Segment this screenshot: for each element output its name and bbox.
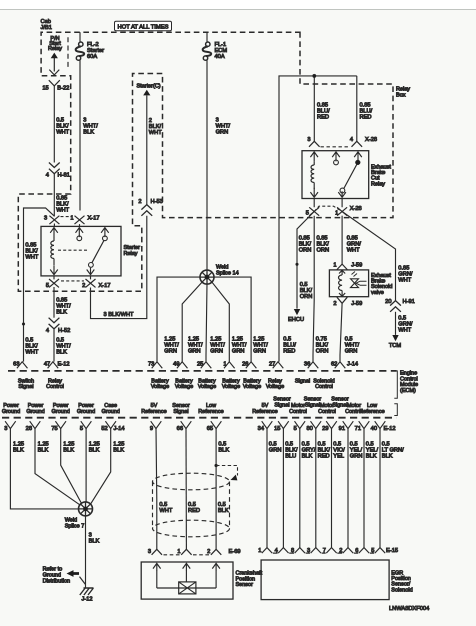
connector E-15 pin 6 bbox=[359, 548, 369, 554]
ECM pin 63 bbox=[17, 362, 28, 369]
connector X-28 pin 3 bbox=[309, 141, 320, 147]
svg-text:Voltage: Voltage bbox=[175, 384, 193, 390]
svg-text:GRN: GRN bbox=[350, 453, 363, 459]
ECM pin 66 (lower row) bbox=[181, 421, 192, 428]
svg-text:91: 91 bbox=[339, 426, 345, 432]
junction node on relay feed bbox=[313, 74, 317, 78]
svg-text:Reference: Reference bbox=[141, 409, 166, 415]
svg-text:Splice 7: Splice 7 bbox=[65, 524, 85, 530]
wire 0.5 to EGR pin 3 bbox=[315, 429, 317, 548]
ECM pin 80 (lower row) bbox=[311, 421, 322, 428]
P/N Start Relay compartment dashed divider bbox=[67, 37, 69, 67]
ECM pin 52 (lower row) bbox=[105, 421, 116, 428]
svg-text:1: 1 bbox=[333, 262, 336, 268]
weld splice 7 bbox=[79, 502, 93, 516]
svg-text:2: 2 bbox=[333, 301, 336, 307]
svg-text:3: 3 bbox=[148, 549, 151, 555]
wire 0.5 WHT/BLK from H-52 to pin 47 bbox=[53, 329, 55, 362]
exhaust relay coil bbox=[310, 152, 318, 162]
wire 0.5 RED ECM pin 66 to E-69 pin 1 bbox=[185, 429, 187, 550]
solenoid valve symbol bbox=[351, 279, 359, 288]
wire battery voltage to pin 26 bbox=[214, 277, 252, 362]
wire 0.5 to EGR pin 7 bbox=[331, 429, 333, 548]
svg-text:Signal: Signal bbox=[332, 403, 347, 409]
ECM pin 28 (lower row) bbox=[30, 421, 41, 428]
svg-text:J-59: J-59 bbox=[351, 301, 362, 307]
svg-text:ORN: ORN bbox=[316, 349, 329, 355]
wire 0.75 BLK/ORN from X-28 pin 5 to ECM pin 36 bbox=[313, 216, 314, 362]
ECM pin 75 (lower row) bbox=[55, 421, 66, 428]
svg-text:J-14: J-14 bbox=[347, 361, 358, 367]
connector J-59 pin 1 bbox=[337, 264, 347, 270]
svg-text:63: 63 bbox=[13, 361, 19, 367]
svg-text:52: 52 bbox=[101, 426, 107, 432]
svg-text:5: 5 bbox=[306, 210, 309, 216]
svg-text:TCM: TCM bbox=[389, 343, 402, 349]
svg-text:71: 71 bbox=[355, 426, 361, 432]
wire 0.5 GRN/WHT from H-91 to TCM bbox=[395, 312, 397, 335]
solenoid coil bbox=[339, 270, 345, 275]
splice tick on switch-signal wire bbox=[22, 323, 25, 326]
svg-text:valve: valve bbox=[371, 290, 384, 296]
svg-text:RED: RED bbox=[283, 349, 295, 355]
svg-text:WHT: WHT bbox=[56, 130, 69, 136]
svg-text:BLK: BLK bbox=[302, 453, 313, 459]
svg-text:HOT AT ALL TIMES: HOT AT ALL TIMES bbox=[118, 24, 169, 30]
connector X-17 pin 2 bbox=[86, 279, 96, 287]
svg-text:3: 3 bbox=[4, 426, 7, 432]
svg-text:WHT: WHT bbox=[56, 208, 69, 214]
exhaust brake cut relay box bbox=[302, 151, 369, 199]
svg-text:Voltage: Voltage bbox=[151, 384, 169, 390]
svg-text:GRN: GRN bbox=[232, 349, 245, 355]
X-28 lower connector dashed bridge bbox=[314, 206, 342, 211]
svg-text:Reference: Reference bbox=[198, 409, 223, 415]
svg-text:15: 15 bbox=[274, 426, 280, 432]
starter relay box bbox=[41, 226, 121, 276]
wire battery voltage to pin 25 bbox=[206, 284, 207, 362]
svg-text:Signal: Signal bbox=[18, 384, 33, 390]
ECM pin 40 (lower row) bbox=[375, 421, 386, 428]
svg-text:ORN: ORN bbox=[300, 294, 313, 300]
svg-text:40: 40 bbox=[371, 426, 377, 432]
svg-text:25: 25 bbox=[197, 361, 203, 367]
inline connector H-91 pin 20 bbox=[390, 301, 401, 312]
svg-text:E-12: E-12 bbox=[58, 361, 70, 367]
svg-text:62: 62 bbox=[331, 361, 337, 367]
svg-text:4: 4 bbox=[46, 173, 49, 179]
svg-text:BLK: BLK bbox=[38, 447, 49, 453]
ground J-12 bbox=[80, 588, 94, 595]
svg-text:5: 5 bbox=[294, 426, 297, 432]
svg-text:Voltage: Voltage bbox=[198, 384, 216, 390]
ECM connector dashed line (upper) bbox=[8, 370, 397, 372]
svg-text:WHT: WHT bbox=[149, 130, 162, 136]
connector E-69 pin 2 bbox=[211, 549, 221, 555]
starter relay contacts bbox=[76, 228, 84, 238]
svg-text:1: 1 bbox=[223, 361, 226, 367]
svg-text:4: 4 bbox=[46, 328, 49, 334]
starter relay mechanical link bbox=[58, 249, 88, 251]
connector E-15 pin 4 bbox=[278, 548, 288, 554]
svg-text:Ground: Ground bbox=[26, 409, 44, 415]
splice tick on EHCU wire bbox=[296, 263, 299, 266]
svg-text:3 BLK/WHT: 3 BLK/WHT bbox=[104, 312, 135, 318]
inline connector H-53 pin 2 bbox=[141, 205, 152, 216]
svg-text:65: 65 bbox=[207, 426, 213, 432]
crank sensor internals bbox=[153, 563, 161, 570]
svg-text:J-59: J-59 bbox=[351, 262, 362, 268]
svg-text:Control: Control bbox=[318, 409, 336, 415]
svg-text:40A: 40A bbox=[215, 54, 225, 60]
inline connector H-81 pin 4 bbox=[49, 163, 60, 174]
wire 0.5 WHT/GRN from J-59 pin 2 to ECM pin 62 bbox=[340, 303, 342, 361]
stems X-17 pins to relay box bbox=[54, 224, 91, 280]
svg-text:RED: RED bbox=[188, 508, 200, 514]
connector X-28 pin 5 bbox=[309, 207, 319, 215]
svg-text:BLK: BLK bbox=[89, 539, 100, 545]
svg-text:Relay: Relay bbox=[371, 181, 385, 187]
svg-text:BLK: BLK bbox=[218, 508, 229, 514]
wire 0.5 to EGR pin 1 bbox=[266, 429, 268, 548]
svg-text:X-17: X-17 bbox=[88, 215, 100, 221]
svg-text:GRN: GRN bbox=[210, 349, 223, 355]
svg-text:GRN: GRN bbox=[216, 130, 229, 136]
svg-text:WHT: WHT bbox=[347, 248, 360, 254]
svg-text:GRN: GRN bbox=[269, 447, 282, 453]
wire 0.5 WHT ECM pin 9 to E-69 pin 3 bbox=[155, 429, 158, 550]
svg-text:GRN: GRN bbox=[164, 349, 177, 355]
svg-text:Ground: Ground bbox=[77, 409, 95, 415]
ECM pin 91 (lower row) bbox=[343, 421, 354, 428]
svg-text:2: 2 bbox=[138, 199, 141, 205]
svg-text:BLK: BLK bbox=[13, 447, 24, 453]
svg-text:H-91: H-91 bbox=[403, 299, 415, 305]
svg-text:X-17: X-17 bbox=[99, 283, 111, 289]
wire 0.5 to EGR pin 2 bbox=[347, 429, 349, 548]
svg-text:YEL: YEL bbox=[333, 453, 344, 459]
svg-text:BLK: BLK bbox=[63, 447, 74, 453]
svg-text:9: 9 bbox=[150, 426, 153, 432]
wire 0.5 to EGR pin 8 bbox=[299, 429, 301, 548]
ECM pin 1 bbox=[224, 362, 235, 369]
X-17 lower connector dashed face bbox=[61, 280, 84, 282]
svg-text:RED: RED bbox=[317, 115, 329, 121]
svg-text:Ground: Ground bbox=[52, 409, 70, 415]
wire battery voltage to pin 49 bbox=[182, 282, 202, 362]
svg-text:5: 5 bbox=[80, 426, 83, 432]
X-28 upper connector dashed face bbox=[321, 146, 351, 148]
EHCU arrow bbox=[294, 309, 300, 315]
connector E-69 pin 3 bbox=[152, 549, 162, 555]
svg-text:Voltage: Voltage bbox=[222, 384, 240, 390]
svg-text:66: 66 bbox=[177, 426, 183, 432]
wire FL-2 feed from hot bus bbox=[79, 32, 81, 41]
svg-text:E-12: E-12 bbox=[384, 426, 396, 432]
svg-text:EHCU: EHCU bbox=[288, 317, 304, 323]
connector E-15 pin 2 bbox=[343, 548, 353, 554]
ECM pin 49 bbox=[177, 362, 188, 369]
wire 0.5 to EGR pin 5 bbox=[379, 429, 381, 548]
TCM arrow bbox=[392, 335, 398, 341]
HOT AT ALL TIMES bus label bbox=[115, 21, 172, 30]
ECM pin 3 (lower row) bbox=[5, 421, 16, 428]
svg-text:Solenoid: Solenoid bbox=[391, 587, 412, 593]
inline connector H-52 pin 4 bbox=[49, 318, 60, 329]
svg-text:Reference: Reference bbox=[359, 409, 384, 415]
wire 2 BLK/WHT to Starter(C) with arrow bbox=[143, 90, 150, 96]
svg-text:BLK: BLK bbox=[56, 350, 67, 356]
svg-text:3: 3 bbox=[44, 215, 47, 221]
svg-text:H-53: H-53 bbox=[151, 199, 163, 205]
ECM pin 15 (lower row) bbox=[278, 421, 289, 428]
svg-text:28: 28 bbox=[26, 426, 32, 432]
wire 0.85 WHT/BLK from X-17 pin 5 to H-52 bbox=[53, 287, 55, 318]
svg-text:Relay: Relay bbox=[124, 251, 138, 257]
connector E-15 pin 3 bbox=[311, 548, 321, 554]
connector X-17 pin 1 bbox=[75, 216, 85, 224]
svg-text:Ground: Ground bbox=[2, 409, 20, 415]
svg-text:Splice 14: Splice 14 bbox=[216, 271, 239, 277]
fuse FL-1 ECM 40A bbox=[206, 42, 210, 46]
svg-text:J-12: J-12 bbox=[82, 596, 93, 602]
wire 0.85 GRN/WHT from X-28 pin 1 to solenoid valve bbox=[341, 216, 343, 264]
ECM pin 5 (lower row) bbox=[81, 421, 92, 428]
svg-text:WHT: WHT bbox=[159, 508, 172, 514]
svg-text:RED: RED bbox=[318, 453, 330, 459]
connector E-15 pin 7 bbox=[326, 548, 336, 554]
svg-text:Ground: Ground bbox=[102, 409, 120, 415]
connector E-69 pin 1 bbox=[181, 549, 191, 555]
svg-text:ORN: ORN bbox=[317, 248, 330, 254]
wire 1.25 BLK pin 5 to splice 7 bbox=[85, 429, 87, 503]
wire 3 WHT/GRN from FL-1 to weld splice 14 bbox=[206, 60, 208, 271]
svg-text:LNWA8DXF004: LNWA8DXF004 bbox=[389, 606, 429, 612]
ECM pin 62 bbox=[335, 362, 346, 369]
wire 0.85 GRN/WHT branch to H-91 and TCM bbox=[342, 212, 395, 301]
connector X-28 pin 1 bbox=[337, 207, 347, 215]
wire 3 BLK splice 7 to ground J-12 bbox=[85, 516, 87, 588]
svg-text:(ECM): (ECM) bbox=[400, 388, 416, 394]
crankshaft position sensor box bbox=[141, 562, 233, 599]
svg-text:X-28: X-28 bbox=[350, 206, 362, 212]
connector B-22 pin 15 bbox=[49, 80, 60, 86]
svg-text:Relay: Relay bbox=[48, 46, 62, 52]
svg-text:H-52: H-52 bbox=[58, 328, 70, 334]
svg-text:3: 3 bbox=[307, 137, 310, 143]
svg-text:GRN: GRN bbox=[188, 349, 201, 355]
svg-text:H-81: H-81 bbox=[58, 173, 70, 179]
wire 0.85 BLK/WHT branch to switch signal bbox=[24, 208, 55, 362]
ECM pin 26 bbox=[246, 362, 257, 369]
svg-text:J/B1: J/B1 bbox=[41, 25, 52, 31]
svg-text:Starter(C): Starter(C) bbox=[137, 84, 161, 90]
wire 0.85 BLK/ORN to EHCU bbox=[297, 212, 314, 309]
svg-text:49: 49 bbox=[173, 361, 179, 367]
wire 0.5 BLK ECM pin 65 to E-69 pin 2 bbox=[215, 429, 217, 550]
page top border bbox=[0, 0, 476, 9]
svg-text:BLK: BLK bbox=[56, 310, 67, 316]
svg-text:BLK: BLK bbox=[382, 453, 393, 459]
svg-text:Voltage: Voltage bbox=[266, 384, 284, 390]
connector E-15 pin 5 bbox=[375, 548, 385, 554]
stems X-28 pins 5/1 to relay box bbox=[314, 199, 342, 208]
ECM pin 5 (lower row) bbox=[295, 421, 306, 428]
svg-text:E-15: E-15 bbox=[386, 548, 398, 554]
svg-text:Signal: Signal bbox=[295, 378, 310, 384]
svg-text:Signal: Signal bbox=[305, 403, 320, 409]
svg-text:Signal: Signal bbox=[274, 403, 289, 409]
svg-text:80: 80 bbox=[306, 426, 312, 432]
svg-text:WHT: WHT bbox=[398, 278, 411, 284]
svg-text:BLU: BLU bbox=[285, 453, 296, 459]
connector E-15 pin 1 bbox=[262, 548, 272, 554]
ECM pin 25 bbox=[201, 362, 212, 369]
ECM pin 34 (lower row) bbox=[262, 421, 273, 428]
svg-text:GRN: GRN bbox=[345, 349, 358, 355]
ECM pin 36 bbox=[308, 362, 319, 369]
wire 0.5 to EGR pin 4 bbox=[282, 429, 284, 548]
E-15 connector dashed face bbox=[273, 552, 374, 554]
Engine Control Module (ECM) label bbox=[394, 371, 397, 398]
wire 0.5 to EGR pin 6 bbox=[363, 429, 365, 548]
svg-text:GRN: GRN bbox=[253, 349, 266, 355]
svg-text:29: 29 bbox=[322, 426, 328, 432]
E-69 connector dashed face bbox=[164, 554, 210, 556]
ECM pin 47 bbox=[48, 362, 59, 369]
wire 3 WHT/BLK from FL-2 to X-17 pin 1 bbox=[79, 60, 81, 211]
svg-text:WHT: WHT bbox=[25, 255, 38, 261]
svg-text:BLK: BLK bbox=[83, 130, 94, 136]
svg-text:ORN: ORN bbox=[299, 248, 312, 254]
svg-text:BLK: BLK bbox=[89, 447, 100, 453]
exhaust brake solenoid valve box bbox=[329, 270, 368, 297]
svg-text:4: 4 bbox=[350, 137, 353, 143]
svg-text:5: 5 bbox=[46, 283, 49, 289]
wire 1.25 BLK pin 75 to splice 7 bbox=[61, 429, 82, 504]
ECM pin 71 (lower row) bbox=[359, 421, 370, 428]
EGR position sensor/solenoid box bbox=[261, 560, 389, 600]
svg-text:75: 75 bbox=[51, 426, 57, 432]
wire 0.5 BLU/RED from ECM pin 27 feeding exhaust brake cut relay bbox=[279, 76, 357, 362]
svg-text:Signal: Signal bbox=[173, 409, 188, 415]
svg-text:36: 36 bbox=[304, 361, 310, 367]
svg-text:RED: RED bbox=[360, 115, 372, 121]
wire 1.25 BLK pin 3 to splice 7 bbox=[10, 429, 79, 509]
svg-text:BLK: BLK bbox=[366, 453, 377, 459]
wire 1.25 BLK pin 28 to splice 7 bbox=[35, 429, 81, 506]
svg-text:BLK: BLK bbox=[113, 447, 124, 453]
svg-text:Box: Box bbox=[396, 92, 406, 98]
svg-text:73: 73 bbox=[148, 361, 154, 367]
wire battery voltage to pin 73 bbox=[157, 277, 200, 362]
shield drain node bbox=[215, 464, 218, 467]
svg-text:Sensor: Sensor bbox=[236, 582, 254, 588]
starter relay coil bbox=[50, 228, 58, 238]
ECM connector dashed line (lower) bbox=[2, 417, 397, 419]
ECM lower label bracket bbox=[394, 404, 397, 416]
svg-text:Control: Control bbox=[46, 384, 64, 390]
connector E-15 pin 8 bbox=[295, 548, 305, 554]
ECM pin 73 bbox=[152, 362, 163, 369]
wire 3 BLK/WHT from X-17 pin 2 up to H-53 bbox=[91, 216, 147, 319]
wire 1.25 BLK pin 52 to splice 7 bbox=[91, 429, 111, 505]
X-17 upper connector dashed face bbox=[61, 216, 73, 218]
svg-text:J-14: J-14 bbox=[114, 426, 125, 432]
shield drain dashed link bbox=[216, 466, 237, 476]
wire battery voltage to pin 1 bbox=[212, 282, 230, 362]
connector X-28 pin 4 bbox=[352, 141, 363, 147]
svg-text:47: 47 bbox=[44, 361, 50, 367]
ECM pin 27 bbox=[273, 362, 284, 369]
fuse FL-2 Starter 60A bbox=[79, 42, 83, 46]
connector J-59 pin 2 bbox=[337, 297, 347, 303]
svg-text:2: 2 bbox=[82, 283, 85, 289]
svg-text:B-22: B-22 bbox=[57, 85, 69, 91]
ECM pin 29 (lower row) bbox=[326, 421, 337, 428]
dashed harness boundary (Cab J/B1 box, HOT bus, Relay Box, Starter(C) corridor) bbox=[18, 32, 393, 291]
svg-text:Control: Control bbox=[315, 384, 333, 390]
exhaust relay contacts bbox=[332, 152, 340, 162]
connector X-17 pin 5 bbox=[49, 279, 59, 287]
svg-text:20: 20 bbox=[385, 299, 391, 305]
svg-text:1: 1 bbox=[335, 210, 338, 216]
svg-text:15: 15 bbox=[42, 85, 48, 91]
wire 0.5 BLK/WHT from B-22 to H-81 bbox=[53, 86, 55, 163]
svg-text:27: 27 bbox=[269, 361, 275, 367]
svg-text:Voltage: Voltage bbox=[243, 384, 261, 390]
svg-text:X-28: X-28 bbox=[365, 137, 377, 143]
wire FL-1 feed from hot bus bbox=[206, 32, 208, 41]
svg-text:WHT: WHT bbox=[398, 328, 411, 334]
svg-text:60A: 60A bbox=[87, 54, 97, 60]
svg-text:Control: Control bbox=[289, 409, 307, 415]
svg-text:Reference: Reference bbox=[252, 409, 277, 415]
ECM pin 65 (lower row) bbox=[211, 421, 222, 428]
connector X-17 pin 3 bbox=[49, 216, 59, 224]
wire 0.85 BLK/WHT from H-81 to X-17 pin 3 bbox=[53, 174, 55, 217]
svg-text:BLK: BLK bbox=[218, 447, 229, 453]
shield (dashed cylinder) around crank sensor wires bbox=[153, 473, 230, 490]
weld splice 14 bbox=[200, 270, 214, 284]
svg-text:Distribution: Distribution bbox=[43, 578, 71, 584]
ECM pin 9 (lower row) bbox=[151, 421, 162, 428]
svg-text:1: 1 bbox=[258, 548, 261, 554]
svg-text:E-69: E-69 bbox=[229, 549, 241, 555]
svg-text:34: 34 bbox=[258, 426, 264, 432]
svg-text:WHT: WHT bbox=[25, 350, 38, 356]
svg-text:26: 26 bbox=[242, 361, 248, 367]
